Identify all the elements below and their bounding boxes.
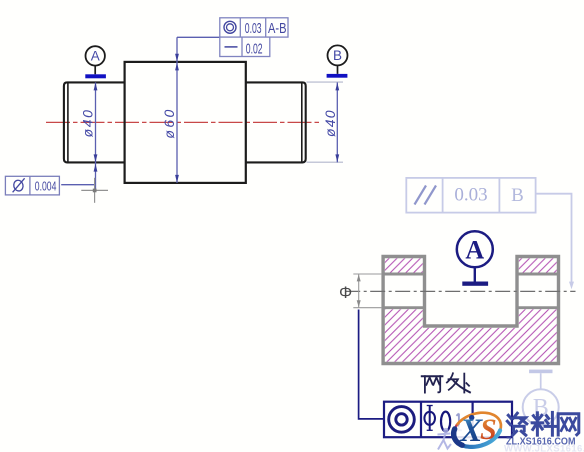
svg-text:A-B: A-B <box>268 20 287 37</box>
svg-text:Φ: Φ <box>339 284 352 302</box>
svg-text:ø40: ø40 <box>79 108 95 137</box>
svg-text:A: A <box>91 49 100 64</box>
svg-text:B: B <box>511 185 524 206</box>
svg-text:ø40: ø40 <box>322 109 338 137</box>
svg-text:B: B <box>333 48 342 63</box>
svg-text:A: A <box>465 235 484 264</box>
svg-text:WWW.JLXS1616.COM: WWW.JLXS1616.COM <box>504 444 584 452</box>
svg-text:0.02: 0.02 <box>246 40 263 57</box>
svg-text:0.004: 0.004 <box>35 179 57 194</box>
svg-text:S: S <box>480 413 497 446</box>
svg-text:0.03: 0.03 <box>245 20 262 37</box>
svg-text:ø60: ø60 <box>161 107 177 138</box>
svg-text:0.03: 0.03 <box>454 185 487 206</box>
